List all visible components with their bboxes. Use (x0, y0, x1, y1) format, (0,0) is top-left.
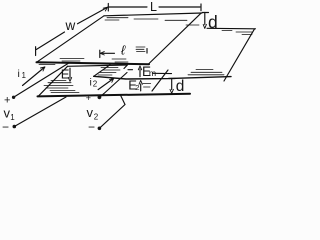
small edge sliver above wire top (124, 65, 128, 69)
svg-text:L: L (150, 0, 157, 14)
lower-left plate left edge (39, 66, 68, 96)
lower-left plate far edge (68, 65, 127, 66)
svg-text:1: 1 (22, 71, 27, 80)
svg-text:i: i (90, 77, 92, 89)
svg-text:w: w (65, 18, 76, 33)
svg-text:E: E (61, 66, 70, 81)
svg-text:v: v (87, 105, 94, 120)
middle plate far edge (207, 27, 256, 30)
E2 hatch dashes (143, 84, 151, 88)
v1 minus junction dot (13, 125, 17, 129)
i1 arrow (23, 67, 45, 86)
hatch marks top plate left cluster (39, 59, 84, 65)
dimension w line (36, 7, 107, 49)
svg-text:−: − (88, 120, 95, 134)
middle plate right edge (224, 29, 255, 81)
dimension d1 T-bar (202, 12, 208, 14)
svg-text:+: + (86, 93, 91, 103)
bottom plate slot edge (152, 70, 168, 91)
svg-text:2: 2 (93, 80, 98, 89)
svg-text:−: − (2, 120, 9, 134)
bottom near edge (38, 94, 191, 97)
hatch marks middle plate far side (222, 31, 252, 35)
hatch marks lower-left plate (44, 81, 79, 93)
i1 arrowhead (41, 67, 45, 71)
dimension ell tick (99, 50, 101, 57)
field E1 arrow (69, 68, 71, 78)
svg-text:i: i (18, 68, 20, 80)
v2 minus junction dot (98, 127, 102, 131)
dimension L right tick (200, 4, 202, 11)
dimension w bottom tick (35, 47, 37, 56)
dimension d2 line (171, 79, 173, 90)
hatch marks middle plate near side (188, 70, 224, 75)
dimension d1 line (204, 13, 206, 25)
svg-text:m: m (149, 68, 156, 78)
v1 plus junction dot (12, 96, 15, 99)
top plate right edge (149, 13, 202, 64)
field E2 arrow (140, 84, 142, 91)
svg-text:1: 1 (10, 113, 15, 122)
dimension w top arrowhead (103, 7, 107, 11)
dimension ell arrowhead (100, 52, 104, 55)
middle plate near edge (94, 76, 231, 79)
svg-text:d: d (176, 78, 185, 95)
middle plate near edge sliver (153, 72, 172, 74)
dash left of Em (128, 69, 133, 71)
dimension ell line (100, 52, 114, 54)
top plate left edge (37, 16, 105, 63)
middle plate left hatch rows (98, 68, 120, 76)
wire i2 to middle plate (99, 73, 127, 98)
tick right of mid hatches (146, 49, 148, 54)
i2 arrowhead (110, 78, 114, 82)
wire v2 minus to bottom plate (99, 95, 125, 129)
hatch marks top plate mid cluster (112, 47, 145, 62)
i2 arrow (98, 78, 114, 89)
dimension d2 T-bar (169, 78, 175, 80)
wire v1 plus to top plate (14, 64, 68, 98)
field Em arrow (139, 69, 141, 77)
dimension L line (109, 6, 200, 8)
top plate near edge (37, 62, 150, 64)
middle plate left edge sliver (94, 65, 110, 77)
dimension L left tick (107, 4, 109, 12)
wire v1 minus to bottom plate (14, 97, 66, 127)
dimension d1 arrowhead (203, 24, 206, 28)
top plate far edge (104, 13, 202, 16)
dimension d2 arrowhead (170, 89, 173, 93)
junction dot i2 (98, 95, 102, 99)
hatch marks top plate far side (105, 18, 199, 25)
